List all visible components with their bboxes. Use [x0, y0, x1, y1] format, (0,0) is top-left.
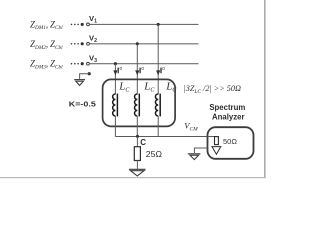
inductor L_C 1: [113, 94, 118, 117]
analyzer internal ground arrow: [212, 147, 221, 155]
wire vertical drop 1: [114, 64, 116, 95]
analyzer ground symbol: [188, 154, 201, 160]
wire resistor to ground: [136, 161, 138, 169]
svg-text:C: C: [140, 138, 146, 147]
svg-text:Spectrum: Spectrum: [209, 103, 245, 112]
ellipsis dots rail 1: [71, 24, 79, 26]
svg-text:50Ω: 50Ω: [223, 137, 237, 146]
ellipsis dots rail 3: [71, 63, 79, 65]
analyzer 50ohm resistor body: [215, 137, 219, 145]
node dot rail 2: [81, 42, 84, 45]
wire coil3 to bus: [157, 116, 159, 137]
wire vertical drop 2: [136, 44, 138, 95]
node dot rail 3: [81, 62, 84, 65]
junction dot rail1/wire3: [157, 23, 160, 26]
current label i0 wire 3: [161, 66, 165, 73]
node dot rail 1: [81, 23, 84, 26]
current arrow i0 on wire 1: [113, 70, 117, 75]
terminal circle rail 1: [87, 23, 90, 26]
svg-text:0: 0: [162, 66, 165, 72]
ground under resistor: [129, 169, 146, 176]
inductor L_C 3: [155, 94, 160, 117]
wire rail V2: [89, 43, 198, 45]
node C junction dot: [136, 135, 139, 138]
svg-text:25Ω: 25Ω: [146, 149, 163, 159]
wire to source ground: [80, 74, 90, 79]
wire coil2 to bus: [136, 116, 138, 137]
junction dot rail2/wire2: [136, 42, 139, 45]
common bus wire: [115, 136, 207, 138]
wire rail V1: [89, 23, 198, 25]
current label i0 wire 2: [140, 66, 144, 73]
wire into analyzer: [208, 136, 217, 138]
inductor L_C 2: [135, 94, 140, 117]
terminal circle rail 3: [87, 62, 90, 65]
current arrow i0 on wire 3: [156, 70, 160, 75]
source ground node dot: [88, 72, 91, 75]
wire rail V3: [89, 63, 198, 65]
wire analyzer to ground: [194, 148, 207, 153]
wire bus to resistor: [136, 137, 138, 147]
junction dot rail3/wire1: [114, 62, 117, 65]
current label i0 wire 1: [118, 66, 122, 73]
ellipsis dots rail 2: [71, 43, 79, 45]
CM choke box: [103, 79, 176, 126]
source ground symbol: [74, 80, 85, 86]
frame bottom border: [0, 177, 266, 178]
current arrow i0 on wire 2: [135, 70, 139, 75]
resistor 25ohm body: [134, 147, 140, 161]
svg-text:0: 0: [120, 66, 123, 72]
spectrum analyzer box: [208, 127, 254, 159]
terminal circle rail 2: [87, 42, 90, 45]
frame right border: [264, 0, 266, 178]
wire vertical drop 3: [157, 24, 159, 94]
wire coil1 to bus: [114, 116, 116, 137]
svg-text:Analyzer: Analyzer: [212, 113, 245, 122]
svg-text:K=-0.5: K=-0.5: [69, 99, 97, 108]
svg-text:0: 0: [141, 66, 144, 72]
